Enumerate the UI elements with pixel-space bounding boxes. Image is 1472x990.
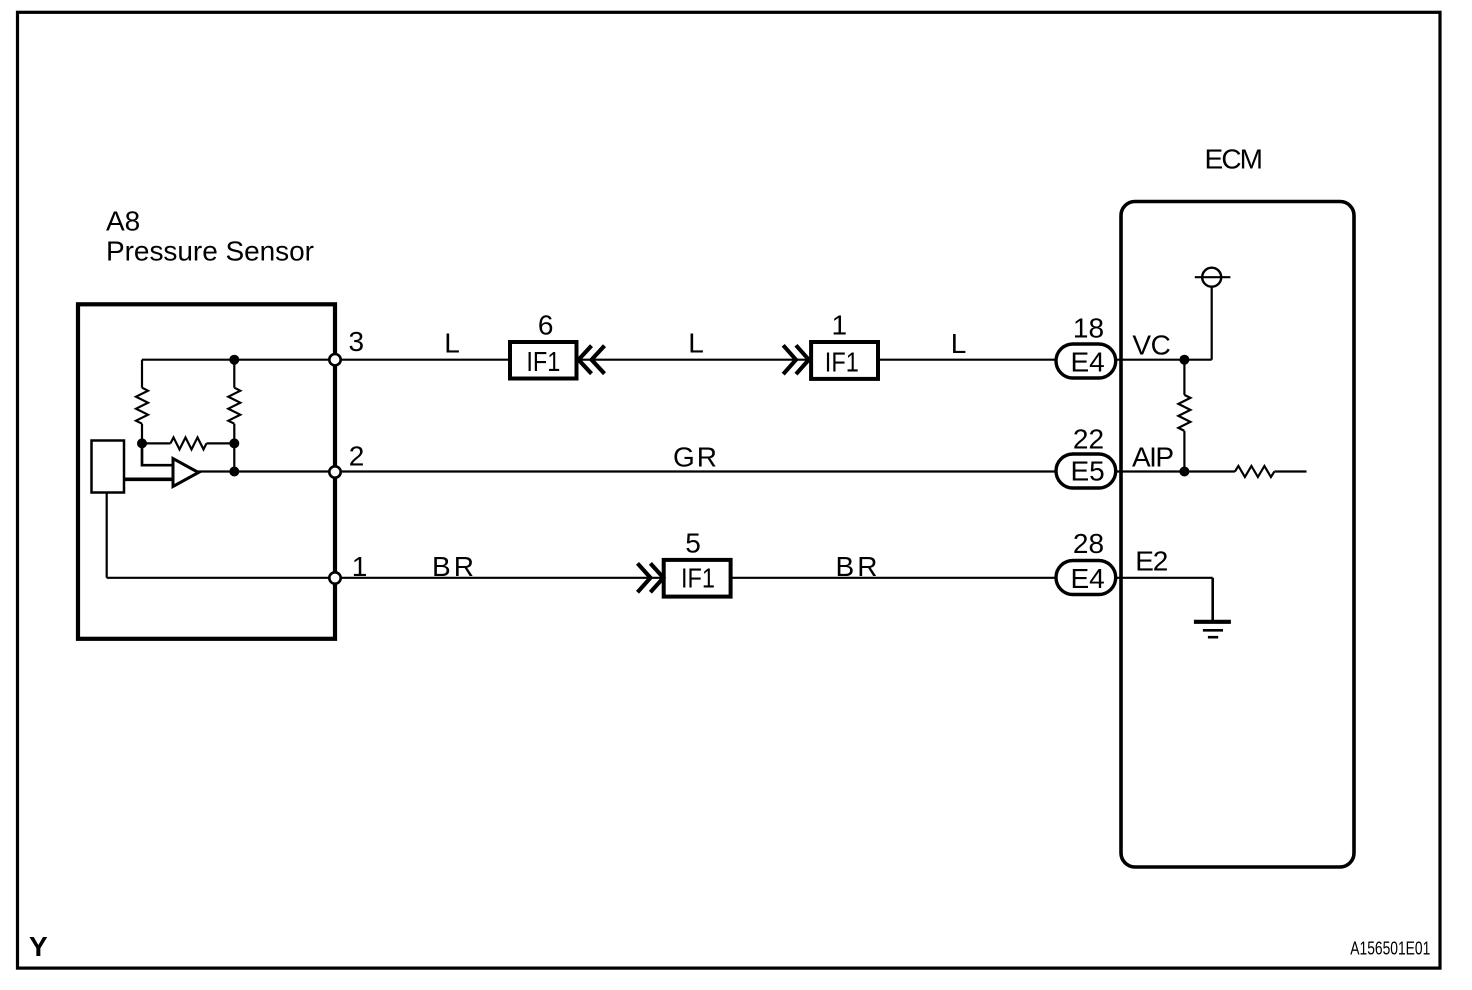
chevron arrows right-pointing before IF1-5 [638,563,651,592]
svg-text:6: 6 [538,310,554,341]
junction node left [137,438,147,448]
resistor R-right (vertical zigzag) [228,388,240,424]
svg-text:VC: VC [1132,329,1171,360]
ground [1194,620,1231,624]
resistor R-aip (horizontal zigzag right of AIP) [1184,470,1235,472]
pin 1 terminal [329,572,340,583]
sensing element box [92,441,125,493]
wire to op-amp upper input [142,443,178,465]
node AIP [1179,467,1189,477]
junction node right [229,438,239,448]
connector IF1 box (pin 5) [664,560,731,597]
svg-text:2: 2 [349,440,365,471]
svg-text:18: 18 [1073,313,1104,344]
svg-text:L: L [688,328,704,359]
connector oval E4 (pin 28) [1056,561,1116,595]
pin 3 terminal [329,354,340,365]
resistor R-mid (horizontal zigzag between branches) [142,442,171,444]
svg-text:IF1: IF1 [681,563,715,594]
junction node top (on VC line) [229,355,239,365]
svg-text:3: 3 [349,326,365,357]
connector oval E4 (pin 18) [1056,344,1116,378]
power symbol circle [1202,268,1221,287]
sensor internal: left branch wire [141,360,143,388]
svg-text:Y: Y [29,931,48,962]
node VC [1179,355,1189,365]
svg-text:E2: E2 [1135,545,1168,576]
svg-text:22: 22 [1073,424,1104,455]
svg-text:1: 1 [832,310,848,341]
connector IF1 box (pin 6) [510,342,577,379]
svg-text:5: 5 [685,527,701,558]
connector oval E5 (pin 22) [1056,454,1116,488]
pin 2 terminal [329,466,340,477]
wire W2 (AIP line) from op-amp output to AIP node [198,470,1184,472]
wire W3 (VC line) from sensor internal corner to ECM power node [142,359,1212,361]
wire [233,424,235,472]
op-amp U1 (amplifier triangle) [173,459,199,487]
resistor R-left (vertical zigzag) [136,388,148,424]
svg-text:IF1: IF1 [825,346,859,377]
svg-text:E5: E5 [1070,456,1104,487]
chevron arrows left-pointing after IF1-6 [579,346,592,374]
wire sensing element to op-amp lower input [125,477,183,481]
svg-text:1: 1 [352,551,368,582]
sensor internal: right branch wire [233,360,235,388]
svg-text:L: L [444,328,460,359]
svg-text:ECM: ECM [1205,144,1264,175]
resistor R-ecm (vertical zigzag VC to AIP) [1183,360,1185,395]
connector IF1 box (pin 1) [811,342,878,379]
junction node output [229,467,239,477]
svg-text:A156501E01: A156501E01 [1350,939,1430,959]
svg-text:BR: BR [432,551,474,582]
svg-text:BR: BR [836,551,878,582]
svg-text:E4: E4 [1070,346,1104,377]
wire E2 down [1211,578,1214,620]
svg-text:E4: E4 [1070,563,1104,594]
wire W1 (E2 line) from sensor element to ECM ground branch [107,577,1213,579]
wire sensing element down to E2 line [106,493,108,578]
svg-text:A8: A8 [106,206,140,237]
ECM box [1121,202,1354,868]
wire power to VC [1211,287,1213,360]
svg-text:L: L [951,328,967,359]
chevron arrows right-pointing before IF1-1 [783,345,796,374]
wire [141,424,143,444]
svg-text:28: 28 [1073,528,1104,559]
svg-text:AIP: AIP [1132,442,1174,473]
pressure sensor box A8 [78,304,335,639]
svg-text:IF1: IF1 [526,346,560,377]
svg-text:Pressure Sensor: Pressure Sensor [106,236,314,267]
